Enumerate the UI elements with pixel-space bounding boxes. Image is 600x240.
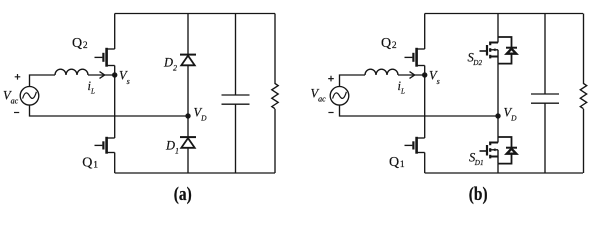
wire S_D1 source to bottom rail (b) bbox=[497, 164, 499, 173]
resistor R load (b) bbox=[580, 84, 586, 109]
wire left leg top to Q2 drain (a) bbox=[114, 14, 116, 50]
wire Vac top to inductor (a) bbox=[30, 75, 56, 87]
svg-text:VD: VD bbox=[504, 106, 518, 123]
wire Q1 source to bottom rail (a) bbox=[114, 153, 116, 174]
wire bottom rail (b) bbox=[425, 172, 583, 174]
wire inductor to node Vs with current arrow (a) bbox=[88, 72, 115, 79]
wire top rail (b) bbox=[425, 13, 583, 15]
node VD (b) bbox=[495, 113, 500, 118]
wire capacitor leg bottom (a) bbox=[235, 104, 237, 173]
svg-text:iL: iL bbox=[398, 79, 405, 96]
wire bottom rail (a) bbox=[115, 172, 275, 174]
transistor Q1 of (b) bbox=[405, 137, 425, 154]
svg-text:Vac: Vac bbox=[311, 87, 327, 104]
wire Vac top to inductor (b) bbox=[340, 75, 366, 87]
body diode of S_D2 bbox=[498, 37, 517, 64]
resistor R load (a) bbox=[272, 84, 278, 109]
wire Q2 source to node Vs (a) bbox=[114, 66, 116, 76]
node Vs (b) bbox=[422, 72, 427, 77]
transistor Q2 bbox=[95, 48, 115, 67]
svg-text:Q1: Q1 bbox=[389, 155, 405, 170]
svg-text:SD1: SD1 bbox=[469, 151, 484, 168]
wire node Vs to Q1 drain (a) bbox=[114, 75, 116, 138]
wire D2 anode to node VD (a) bbox=[187, 65, 189, 116]
node VD (a) bbox=[185, 113, 190, 118]
voltage source Vac (a) bbox=[20, 87, 39, 106]
label minus polarity (b) bbox=[328, 112, 333, 114]
wire Q2 source to node Vs (b) bbox=[424, 66, 426, 76]
wire resistor leg bottom (a) bbox=[274, 109, 276, 173]
transistor S_D1 bbox=[480, 142, 499, 164]
wire capacitor leg bottom (b) bbox=[544, 103, 546, 173]
transistor S_D2 bbox=[480, 42, 499, 64]
wire resistor leg bottom (b) bbox=[583, 109, 585, 173]
wire Q1 source to bottom rail (b) bbox=[424, 153, 426, 174]
wire D1 anode to bottom rail (a) bbox=[187, 148, 189, 173]
svg-text:SD2: SD2 bbox=[468, 51, 483, 68]
body diode of S_D1 bbox=[498, 137, 517, 164]
wire Vac bottom to node VD (a) bbox=[30, 105, 189, 116]
transistor Q1 bbox=[95, 137, 115, 154]
inductor L (a) bbox=[55, 69, 88, 75]
svg-text:(b): (b) bbox=[469, 183, 488, 204]
node Vs (a) bbox=[112, 72, 117, 77]
wire node Vs to Q1 drain (b) bbox=[424, 75, 426, 138]
wire node VD to D1 (a) bbox=[187, 116, 189, 137]
wire capacitor leg top (a) bbox=[235, 14, 237, 96]
capacitor C (a) bbox=[222, 95, 250, 104]
svg-text:(a): (a) bbox=[174, 183, 192, 204]
wire node VD to S_D1 drain (b) bbox=[497, 116, 499, 143]
wire capacitor leg top (b) bbox=[544, 14, 546, 95]
label plus polarity (b) bbox=[328, 76, 334, 82]
wire left leg top to Q2 drain (b) bbox=[424, 14, 426, 50]
capacitor C (b) bbox=[531, 94, 559, 103]
wire diode leg top rail to D2 (a) bbox=[187, 14, 189, 55]
diode D2 bbox=[180, 55, 196, 66]
label plus polarity (a) bbox=[15, 74, 21, 80]
svg-text:Q2: Q2 bbox=[381, 36, 397, 51]
wire resistor leg top (b) bbox=[583, 14, 585, 85]
wire switch leg top rail to S_D2 drain (b) bbox=[497, 14, 499, 43]
wire Vac bottom to node VD (b) bbox=[340, 105, 499, 116]
svg-text:Vs: Vs bbox=[429, 69, 440, 87]
svg-text:D1: D1 bbox=[165, 139, 179, 156]
voltage source Vac (b) bbox=[330, 87, 349, 106]
svg-text:Q1: Q1 bbox=[82, 155, 98, 170]
wire S_D2 source to node VD (b) bbox=[497, 64, 499, 116]
transistor Q2 of (b) bbox=[405, 48, 425, 67]
wire top rail (a) bbox=[115, 13, 275, 15]
svg-text:Vac: Vac bbox=[3, 89, 19, 106]
wire inductor to node Vs with current arrow (b) bbox=[398, 72, 425, 79]
diode D1 bbox=[180, 137, 196, 148]
svg-text:Q2: Q2 bbox=[72, 36, 88, 51]
svg-text:VD: VD bbox=[194, 106, 208, 123]
svg-text:Vs: Vs bbox=[119, 69, 130, 87]
svg-text:iL: iL bbox=[88, 79, 95, 96]
inductor L (b) bbox=[365, 69, 398, 75]
wire resistor leg top (a) bbox=[274, 14, 276, 85]
svg-text:D2: D2 bbox=[163, 56, 177, 73]
label minus polarity (a) bbox=[14, 112, 19, 114]
